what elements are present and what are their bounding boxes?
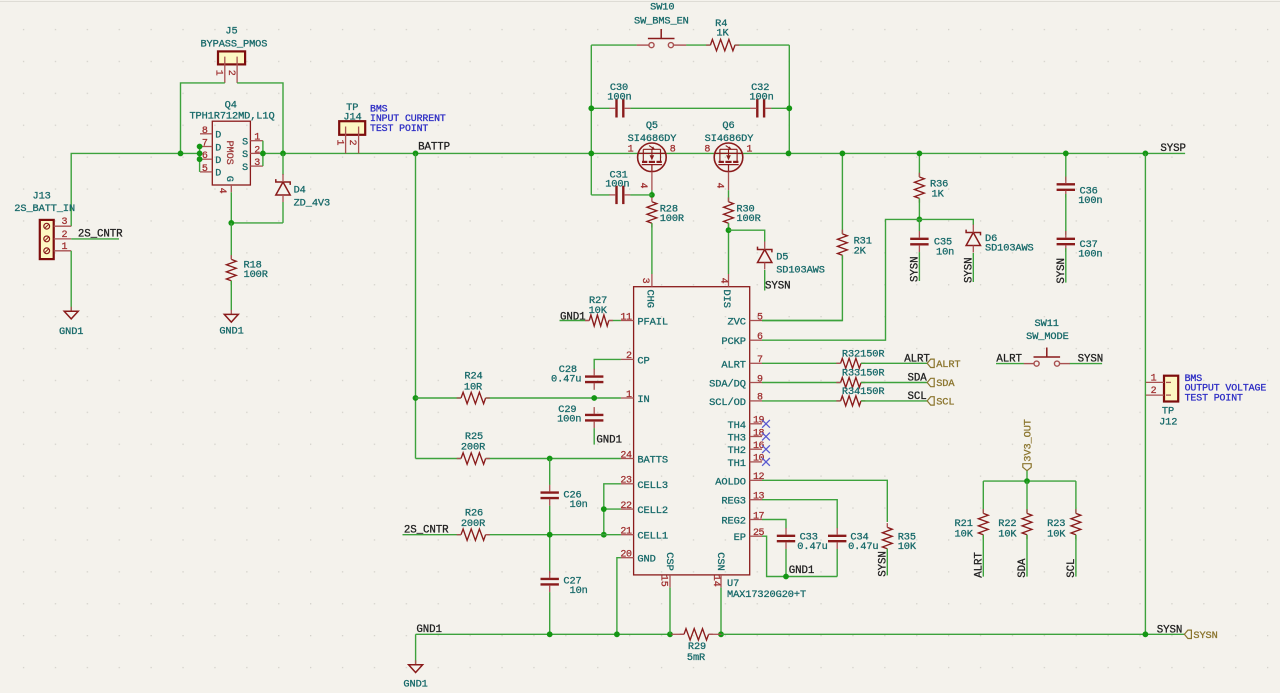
svg-text:BATTP: BATTP	[418, 141, 450, 153]
svg-text:ZVC: ZVC	[727, 317, 745, 329]
svg-text:23: 23	[620, 476, 632, 487]
wire CELL3 CELL2 CELL1 bus	[604, 484, 621, 535]
svg-text:SD103AWS: SD103AWS	[985, 243, 1034, 255]
pin 24 BATTS U7	[621, 458, 634, 460]
svg-text:3V3_OUT: 3V3_OUT	[1023, 419, 1035, 462]
pin 20 GND U7	[621, 557, 634, 559]
junction rail at J5 left riser	[178, 151, 184, 157]
capacitor C36 100n	[1065, 153, 1067, 180]
svg-text:100n: 100n	[1078, 195, 1102, 207]
wire SW11 to SYSN	[1070, 363, 1102, 365]
pin 23 CELL3 U7	[621, 483, 634, 485]
resistor R21 10K	[982, 481, 984, 513]
svg-text:SW11: SW11	[1035, 318, 1059, 330]
pin 4 DIS U7	[728, 274, 730, 287]
resistor R28 100R	[647, 202, 657, 223]
svg-text:8: 8	[202, 126, 208, 137]
pin 2 CP U7	[621, 358, 634, 360]
svg-text:BYPASS_PMOS: BYPASS_PMOS	[200, 39, 267, 51]
wire 3V3 bus	[1026, 471, 1028, 481]
capacitor C34 0.47u	[828, 535, 846, 537]
resistor R24 10R	[461, 392, 486, 403]
diode D4 ZD_4V3	[282, 153, 284, 175]
svg-text:100n: 100n	[1078, 249, 1102, 261]
svg-text:CP: CP	[637, 355, 649, 367]
junction rail SW10 risers	[588, 151, 594, 157]
svg-text:AOLDO: AOLDO	[715, 476, 746, 488]
resistor R23 10K	[1075, 481, 1077, 513]
wire J13 pin1 to ground	[70, 251, 72, 311]
svg-text:1: 1	[746, 145, 752, 156]
svg-text:SCL: SCL	[936, 397, 954, 409]
svg-text:1: 1	[1151, 373, 1157, 384]
wire ZVC	[762, 320, 842, 322]
pin 7 ALRT U7	[750, 362, 762, 364]
diode D5 SD103AWS	[729, 230, 765, 241]
svg-text:SCL/OD: SCL/OD	[709, 397, 746, 409]
wire BATTP rail left segment	[71, 153, 199, 226]
svg-text:ALRT: ALRT	[973, 552, 985, 578]
wire PCKP branch	[762, 219, 919, 340]
pin 4 Q5	[651, 172, 653, 191]
svg-text:G: G	[223, 176, 234, 182]
svg-text:10K: 10K	[589, 305, 608, 317]
op-amp U7 MAX17320G20+T	[634, 287, 750, 575]
resistor R30 100R	[724, 202, 734, 223]
svg-text:ALRT: ALRT	[996, 353, 1022, 365]
svg-text:6: 6	[757, 332, 763, 343]
svg-text:GND1: GND1	[403, 678, 427, 690]
svg-text:0.47u: 0.47u	[797, 541, 827, 553]
resistor R31 2K	[841, 153, 843, 234]
hierarchical label SCL	[927, 397, 934, 405]
capacitor C30 100n	[615, 99, 617, 117]
svg-text:SYSN: SYSN	[1078, 353, 1104, 365]
svg-text:2S_CNTR: 2S_CNTR	[78, 228, 123, 240]
svg-text:3: 3	[254, 158, 260, 169]
wire Q4 gate node	[231, 192, 283, 223]
svg-text:100R: 100R	[660, 213, 684, 225]
pin 8 SCL/OD U7	[750, 400, 762, 402]
svg-text:2: 2	[346, 140, 357, 146]
svg-text:4: 4	[637, 183, 648, 189]
svg-text:S: S	[242, 163, 248, 174]
svg-text:25: 25	[753, 528, 765, 539]
svg-text:SYSN: SYSN	[909, 256, 921, 282]
svg-text:SDA: SDA	[936, 378, 955, 390]
pin 17 REG2 U7	[750, 519, 762, 521]
svg-text:GND1: GND1	[59, 326, 83, 338]
svg-text:S: S	[242, 138, 248, 149]
svg-text:1: 1	[62, 242, 68, 253]
wire CELL1 2S_CNTR line	[403, 534, 462, 536]
junction R30 D5	[726, 227, 732, 233]
switch SW11 SW_MODE	[1024, 363, 1034, 365]
transistor Q4 TPH1R712MD,L1Q	[212, 121, 250, 185]
svg-text:4: 4	[718, 278, 729, 284]
pin 22 CELL2 U7	[621, 508, 634, 510]
svg-text:10n: 10n	[570, 585, 588, 597]
svg-text:SW_MODE: SW_MODE	[1026, 331, 1069, 343]
svg-text:S: S	[242, 150, 248, 161]
capacitor C31 100n	[591, 194, 609, 196]
svg-text:Q6: Q6	[722, 120, 734, 132]
svg-text:SW10: SW10	[650, 2, 674, 14]
resistor R34 150R	[762, 400, 841, 402]
svg-text:100R: 100R	[736, 213, 760, 225]
switch SW10 SW_BMS_EN	[637, 44, 649, 46]
svg-text:CSN: CSN	[714, 552, 726, 570]
svg-text:R32150R: R32150R	[842, 348, 885, 360]
svg-text:PFAIL: PFAIL	[637, 317, 668, 329]
svg-text:2S_CNTR: 2S_CNTR	[404, 525, 449, 537]
svg-text:2S_BATT_IN: 2S_BATT_IN	[14, 203, 75, 215]
svg-text:J13: J13	[33, 191, 51, 203]
resistor R33 150R	[762, 382, 841, 384]
svg-text:D: D	[215, 156, 221, 167]
svg-text:10K: 10K	[898, 541, 917, 553]
capacitor C29 100n	[585, 414, 603, 416]
ground GND1 bottom left	[415, 660, 417, 665]
svg-text:SYSN: SYSN	[765, 280, 791, 292]
wire IN line	[416, 397, 462, 399]
svg-text:CHG: CHG	[643, 290, 655, 308]
svg-text:20: 20	[620, 550, 632, 561]
connector J14 test point	[339, 121, 365, 135]
wire GND1 bottom rail	[416, 633, 672, 635]
svg-text:10K: 10K	[1047, 529, 1066, 541]
svg-text:Q5: Q5	[646, 120, 658, 132]
svg-text:7: 7	[202, 139, 208, 150]
svg-text:SW_BMS_EN: SW_BMS_EN	[634, 15, 689, 27]
svg-text:PMOS: PMOS	[223, 140, 235, 164]
svg-text:TH2: TH2	[727, 445, 745, 457]
svg-text:2: 2	[225, 70, 236, 76]
svg-text:SI4686DY: SI4686DY	[705, 133, 754, 145]
svg-text:D5: D5	[776, 252, 788, 264]
svg-text:ZD_4V3: ZD_4V3	[294, 197, 330, 209]
svg-text:R33150R: R33150R	[842, 368, 885, 380]
svg-text:GND: GND	[637, 554, 655, 566]
svg-text:IN: IN	[637, 394, 649, 406]
svg-text:1: 1	[628, 145, 634, 156]
svg-text:TH3: TH3	[727, 433, 745, 445]
svg-text:CELL2: CELL2	[637, 505, 668, 517]
svg-text:GND1: GND1	[789, 565, 815, 577]
capacitor C32 100n	[756, 99, 758, 117]
svg-text:200R: 200R	[461, 518, 485, 530]
pin 16 TH2 U7	[750, 448, 762, 450]
wire BATTS line	[416, 458, 462, 460]
pin 21 CELL1 U7	[621, 534, 634, 536]
capacitor C35 10n	[918, 219, 920, 231]
svg-text:J14: J14	[343, 112, 361, 124]
svg-text:17: 17	[753, 511, 765, 522]
capacitor C28 0.47u	[585, 375, 603, 377]
wire 2S_CNTR from J13 pin2	[71, 238, 119, 240]
svg-text:100n: 100n	[557, 413, 581, 425]
svg-text:TPH1R712MD,L1Q: TPH1R712MD,L1Q	[189, 111, 274, 123]
svg-text:7: 7	[757, 355, 763, 366]
svg-text:1: 1	[626, 390, 632, 401]
pin 6 PCKP U7	[750, 339, 762, 341]
svg-text:ALRT: ALRT	[721, 359, 746, 371]
svg-text:SI4686DY: SI4686DY	[628, 133, 677, 145]
svg-text:EP: EP	[734, 532, 746, 544]
capacitor C33 0.47u	[777, 535, 795, 537]
connector J13 2S_BATT_IN	[40, 220, 54, 259]
wire CSP to rail	[669, 588, 671, 635]
svg-text:SDA: SDA	[908, 373, 928, 385]
pin 15 CSP U7	[669, 575, 671, 588]
svg-text:21: 21	[620, 527, 632, 538]
wire C30 C32 row	[591, 107, 609, 109]
wire SYSP column to J12	[1144, 153, 1146, 634]
wire SW10 top loop	[590, 45, 592, 195]
resistor R36 1K	[918, 153, 920, 177]
ground GND1 at J13	[70, 307, 72, 312]
svg-text:100n: 100n	[749, 92, 773, 104]
svg-text:13: 13	[753, 492, 765, 503]
svg-text:3: 3	[639, 278, 650, 284]
resistor R22 10K	[1026, 481, 1028, 513]
svg-text:10n: 10n	[570, 499, 588, 511]
svg-text:TH4: TH4	[727, 420, 745, 432]
svg-text:9: 9	[757, 374, 763, 385]
wire REG2 to C33	[762, 520, 786, 529]
svg-text:6: 6	[202, 151, 208, 162]
svg-text:CELL1: CELL1	[637, 531, 668, 543]
svg-text:11: 11	[620, 312, 632, 323]
connector J12 test point	[1164, 376, 1178, 402]
wire Q4 source bus	[262, 141, 264, 166]
svg-text:SCL: SCL	[1066, 559, 1078, 578]
wire J5 pin2 to rail	[237, 83, 283, 153]
svg-text:CSP: CSP	[663, 552, 675, 570]
wire AOLDO	[762, 480, 887, 522]
ground GND1 below R18	[230, 310, 232, 315]
svg-text:8: 8	[670, 145, 676, 156]
wire CP to C28	[594, 359, 621, 370]
pin 13 REG3 U7	[750, 499, 762, 501]
pin 18 TH3 U7	[750, 436, 762, 438]
svg-text:SYSP: SYSP	[1160, 143, 1186, 155]
svg-text:SYSN: SYSN	[1157, 625, 1183, 637]
hierarchical label ALRT	[927, 359, 934, 367]
capacitor C26 10n	[549, 459, 551, 485]
svg-text:2K: 2K	[854, 246, 867, 258]
svg-text:2: 2	[62, 230, 68, 241]
pin 10 TH1 U7	[750, 461, 762, 463]
svg-text:2: 2	[1151, 386, 1157, 397]
svg-text:0.47u: 0.47u	[551, 374, 581, 386]
resistor R29 5mR shunt	[672, 633, 685, 635]
svg-text:ALRT: ALRT	[904, 353, 930, 365]
svg-text:14: 14	[710, 575, 721, 587]
pin 12 AOLDO U7	[750, 479, 762, 481]
svg-text:D: D	[215, 169, 221, 180]
svg-text:SYSN: SYSN	[1193, 630, 1217, 642]
svg-text:ALRT: ALRT	[936, 359, 960, 371]
svg-text:2: 2	[254, 145, 260, 156]
svg-text:D: D	[215, 143, 221, 154]
svg-text:D: D	[215, 131, 221, 142]
resistor R26 200R	[461, 529, 486, 540]
svg-text:0.47u: 0.47u	[848, 541, 878, 553]
svg-text:1: 1	[333, 140, 344, 146]
svg-text:SYSN: SYSN	[877, 551, 889, 577]
svg-text:R34150R: R34150R	[842, 386, 885, 398]
svg-text:DIS: DIS	[720, 290, 732, 308]
svg-text:REG3: REG3	[721, 496, 746, 508]
svg-text:5: 5	[202, 164, 208, 175]
svg-text:2: 2	[626, 351, 632, 362]
resistor R4 1K	[710, 39, 735, 50]
wire J5 pin1 to rail	[181, 83, 225, 153]
svg-text:SDA: SDA	[1017, 558, 1029, 578]
svg-text:100n: 100n	[605, 178, 629, 190]
svg-text:GND1: GND1	[416, 624, 442, 636]
wire SYSN bottom rail	[721, 633, 1184, 635]
hierarchical label SYSN	[1184, 630, 1191, 638]
svg-text:5: 5	[757, 312, 763, 323]
hierarchical label 3V3_OUT	[1023, 464, 1031, 471]
wire SYSP rail	[263, 152, 1185, 154]
svg-text:10R: 10R	[464, 381, 482, 393]
svg-text:8: 8	[757, 393, 763, 404]
resistor R32 150R	[762, 362, 841, 364]
svg-text:BATTS: BATTS	[637, 455, 668, 467]
svg-text:SD103AWS: SD103AWS	[776, 265, 825, 277]
resistor R18 100R	[230, 223, 232, 259]
svg-text:J5: J5	[225, 25, 237, 37]
svg-text:12: 12	[753, 472, 765, 483]
pin 19 TH4 U7	[750, 423, 762, 425]
hierarchical label SDA	[927, 378, 934, 386]
pin 5 ZVC U7	[750, 320, 762, 322]
svg-text:3: 3	[62, 217, 68, 228]
svg-text:100R: 100R	[244, 269, 268, 281]
svg-text:PCKP: PCKP	[721, 336, 746, 348]
pin 4 Q6	[728, 172, 730, 191]
transistor Q5 SI4686DY	[638, 143, 667, 172]
capacitor C27 10n	[541, 578, 559, 580]
capacitor C37 100n	[1065, 194, 1067, 235]
svg-text:10K: 10K	[955, 529, 974, 541]
svg-text:10n: 10n	[936, 247, 954, 259]
pin 25 EP U7	[750, 535, 762, 537]
svg-text:1: 1	[213, 70, 224, 76]
svg-text:4: 4	[216, 188, 227, 194]
wire CSN to rail	[720, 588, 722, 635]
svg-text:1K: 1K	[716, 28, 729, 40]
pin 3 CHG U7	[651, 274, 653, 287]
resistor R25 200R	[461, 453, 486, 464]
wire REG3 to C34	[762, 500, 837, 529]
svg-text:GND1: GND1	[596, 435, 622, 447]
svg-text:SYSN: SYSN	[963, 257, 975, 283]
svg-text:D4: D4	[294, 185, 306, 197]
transistor Q6 SI4686DY	[714, 143, 743, 172]
svg-text:22: 22	[620, 501, 632, 512]
svg-text:200R: 200R	[461, 442, 485, 454]
resistor R35 10K	[882, 527, 892, 548]
svg-text:1: 1	[254, 133, 260, 144]
wire BATTP feed down	[415, 153, 417, 458]
svg-text:24: 24	[620, 450, 632, 461]
wire GND pin down	[617, 558, 621, 635]
wire ALRT to SW11	[996, 363, 1024, 365]
svg-text:100n: 100n	[607, 92, 631, 104]
svg-text:5mR: 5mR	[687, 652, 705, 664]
pin 4 gate Q4	[230, 185, 232, 192]
svg-text:GND1: GND1	[219, 326, 243, 338]
pin 9 SDA/DQ U7	[750, 382, 762, 384]
svg-text:TEST POINT: TEST POINT	[1185, 392, 1243, 403]
diode D6 SD103AWS	[919, 219, 973, 225]
pin 1 IN U7	[621, 397, 634, 399]
connector J5 BYPASS_PMOS	[218, 51, 245, 64]
wire Q4 drain bus	[199, 147, 201, 172]
svg-text:REG2: REG2	[721, 516, 746, 528]
svg-text:15: 15	[657, 575, 668, 587]
svg-text:GND1: GND1	[560, 312, 586, 324]
pin 14 CSN U7	[720, 575, 722, 588]
svg-text:10K: 10K	[998, 529, 1017, 541]
svg-text:4: 4	[714, 183, 725, 189]
svg-text:TEST POINT: TEST POINT	[370, 123, 428, 134]
pin 11 PFAIL U7	[621, 320, 634, 322]
svg-text:1K: 1K	[932, 188, 945, 200]
svg-text:MAX17320G20+T: MAX17320G20+T	[727, 589, 806, 601]
wire EP to GND1 node	[762, 536, 837, 576]
svg-text:CELL3: CELL3	[637, 480, 668, 492]
svg-text:TH1: TH1	[727, 458, 745, 470]
svg-text:J12: J12	[1159, 417, 1177, 429]
svg-text:SDA/DQ: SDA/DQ	[709, 379, 746, 391]
svg-text:SCL: SCL	[908, 391, 927, 403]
svg-text:8: 8	[704, 145, 710, 156]
svg-text:SYSN: SYSN	[1056, 258, 1068, 284]
junction rail at J5 right riser	[280, 151, 286, 157]
